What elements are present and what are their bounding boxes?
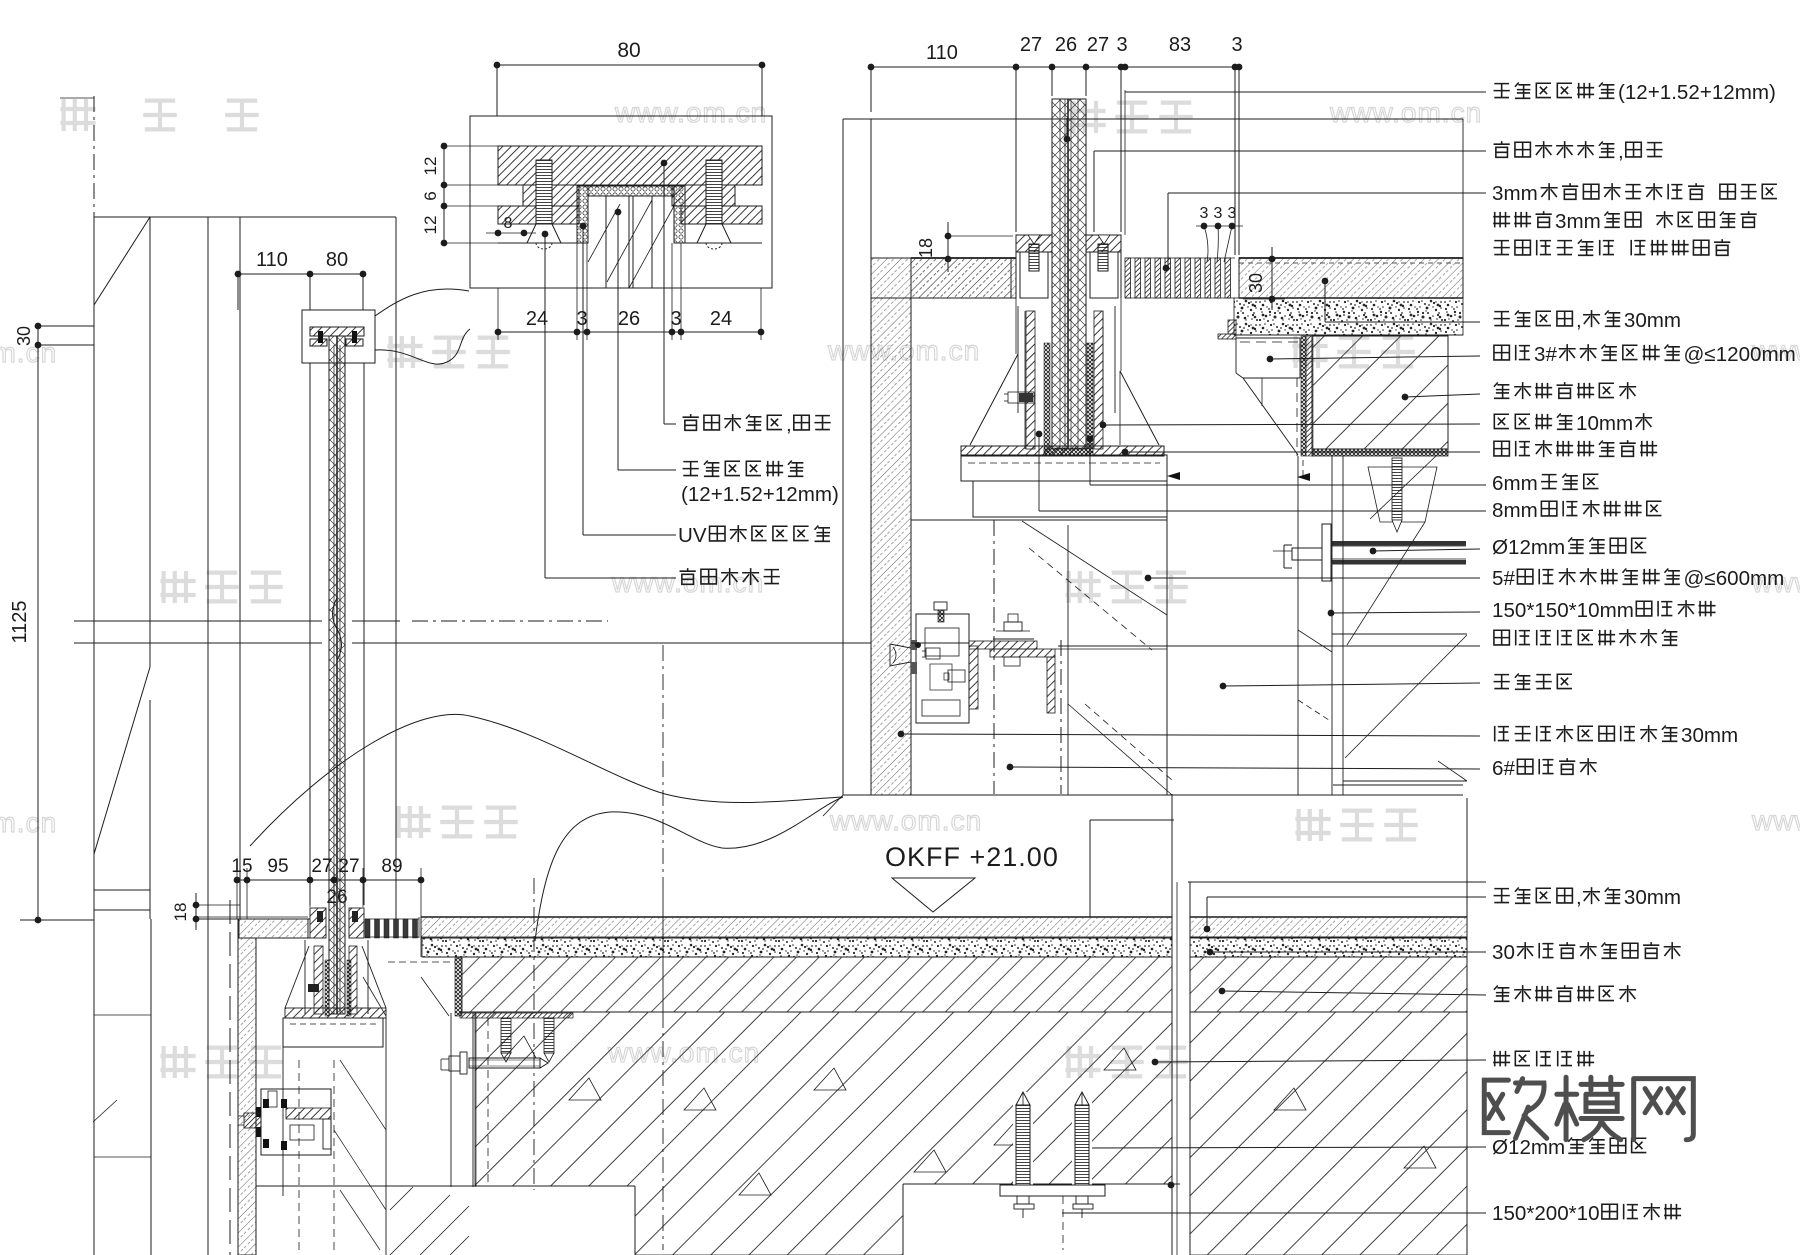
glass panel (left view) [329,336,345,1014]
label: stainless handrail [683,414,699,430]
shoe side trapezoid [970,354,1018,445]
lower mortar band [422,938,1172,957]
handrail box (left view) [302,310,375,363]
dim 30 (stone) [1271,247,1273,310]
leader curves to detail inset [375,289,469,316]
dim 3 3 3 [1196,225,1243,227]
svg-text:3: 3 [1214,205,1223,222]
floor edge line [843,794,1463,796]
leader: anchor lower [1082,1145,1089,1152]
mortar speckle band [1234,298,1463,335]
handrail clamp blocks [310,339,327,346]
svg-text:18: 18 [916,238,936,258]
gasket strips beside glass [1044,343,1050,455]
dim extension lines [870,67,872,112]
inset glass break diagonals [607,200,652,282]
svg-text:,: , [1576,309,1582,332]
svg-text:30: 30 [14,326,34,346]
svg-text:8mm: 8mm [1492,499,1538,522]
inset bolt left [536,160,552,224]
bracket middle bolts [926,648,940,659]
wall break diagonals [94,217,150,305]
shoe side bolt [1008,392,1034,403]
duct inner walls right [1297,456,1299,795]
svg-text:110: 110 [926,42,958,64]
svg-text:30: 30 [1246,273,1266,293]
structure outer edge [842,119,844,795]
leader: stainless fixing [1094,150,1486,152]
svg-text:8: 8 [504,215,513,232]
svg-text:80: 80 [617,39,640,62]
angle steel bracket top [1218,334,1236,339]
svg-text:3: 3 [1231,34,1242,56]
glass clamp left [1016,235,1052,252]
angle steel bracket arm [969,641,1037,649]
rubber pad leader [1087,436,1094,443]
svg-text:,: , [1618,140,1624,163]
lower back-bolt bracket [261,1089,331,1155]
upper floor slab edge lines (left) [74,620,322,622]
svg-text:24: 24 [710,308,732,330]
leader: grille [1168,192,1486,194]
shoe side plates hatched [1026,311,1035,449]
svg-text:95: 95 [267,856,288,877]
svg-text:www.om.cn: www.om.cn [1329,97,1482,128]
svg-text:27: 27 [1087,34,1109,56]
bracket horizontal line [911,642,969,644]
angle bolt bottom [1004,657,1020,666]
svg-text:3: 3 [1200,205,1209,222]
shoe plate verticals [1017,306,1019,413]
inset dim 80 top [497,64,762,66]
svg-text:3#: 3# [1534,343,1557,366]
anchor bolt pair in slab [1013,1092,1033,1190]
shoe base plates [961,455,1167,481]
lower shoe trapezoid [285,946,309,1008]
svg-text:26: 26 [1055,34,1077,56]
ceramic cushion leader [1402,394,1409,401]
duct support box [1236,337,1300,339]
svg-text:6#: 6# [1492,757,1515,780]
inset bolt right [706,160,722,224]
inset dim 8 [486,232,536,234]
shoe base plate hatched [961,446,1164,456]
label: laminated glass [683,462,699,476]
chemical anchor horizontal [1322,524,1331,581]
inset side blocks [523,185,579,206]
lower 150*200 plate with screws [460,1013,573,1018]
stainless grille bars [1125,258,1131,298]
svg-text:(12+1.52+12mm): (12+1.52+12mm) [1618,81,1776,104]
inset handrail top plate [498,146,762,185]
svg-text:6mm: 6mm [1492,472,1538,495]
svg-text:,: , [1576,886,1582,909]
wall joint lines [94,889,150,891]
svg-text:83: 83 [1169,34,1191,56]
dim 1125 [37,345,39,920]
svg-text:1125: 1125 [9,600,31,643]
8mm plate leader [1036,431,1043,438]
stone floor band left of clamp [911,258,1016,298]
leader glass 10mm [1100,422,1107,429]
self-tapping screw under cushion [1368,467,1437,522]
glass clamp right [1086,235,1121,252]
galvanized angle duct support leader [1267,356,1274,363]
svg-text:www.om.cn: www.om.cn [829,805,982,836]
natural stone leader (upper) [1322,278,1329,285]
svg-text:,: , [786,413,792,436]
svg-text:18: 18 [171,903,190,922]
svg-text:www.om.cn: www.om.cn [614,97,767,128]
svg-text:30mm: 30mm [1624,309,1681,332]
slab notches (white) [469,1186,635,1255]
leader shoe base [1122,449,1129,456]
lower grille bars [365,919,370,938]
glass slot verticals [309,363,311,905]
top dim chain [871,66,1239,68]
angle bolt top [1004,622,1022,631]
leader: mortar lower [1207,949,1214,956]
inset dim 24/3/26/3/24 [498,331,761,333]
svg-text:30: 30 [1492,941,1515,964]
svg-text:3: 3 [576,308,587,330]
dim 15/95/27/27/89 [237,879,421,881]
svg-text:3: 3 [1228,205,1237,222]
leader: 150*200 plate [1168,1182,1175,1189]
small arrows at plate seams [1167,472,1180,480]
svg-text:www.om.cn: www.om.cn [0,807,57,838]
leaders right (mid group) [1145,575,1152,582]
svg-text:30mm: 30mm [1681,724,1738,747]
leader: natural stone lower [1188,881,1486,883]
svg-text:26: 26 [326,887,347,908]
svg-text:3: 3 [1116,34,1127,56]
ceramic concrete cushion box [1301,336,1306,456]
level triangle [892,878,975,912]
lower horizontal anchor [469,1058,540,1068]
svg-text:89: 89 [381,856,402,877]
svg-text:5#: 5# [1492,567,1515,590]
svg-text:3mm: 3mm [1555,210,1601,233]
duct diagonals right [1345,635,1467,758]
svg-text:(12+1.52+12mm): (12+1.52+12mm) [681,483,839,506]
big watermark logo [1484,1079,1546,1139]
dim 18 lower-left [196,904,240,906]
svg-text:Ø12mm: Ø12mm [1492,536,1565,559]
wall column outline [94,216,396,218]
label laminated glass [1494,84,1510,98]
lower stone band [421,917,1172,937]
svg-text:15: 15 [231,856,252,877]
watermarks [60,99,95,131]
center axis dash-dot above wall [93,96,95,217]
lower floor stone top [421,916,1172,918]
lower shoe verticals [282,1047,284,1196]
detail inset box [470,116,772,288]
svg-text:3mm: 3mm [1492,182,1538,205]
svg-text:6: 6 [421,191,440,200]
lower shoe clamps [310,908,326,938]
dim 110 / 80 (left) [238,273,363,275]
svg-text:110: 110 [256,249,288,271]
bracket vertical plate [969,646,978,709]
wall hatch band [871,258,1011,298]
svg-text:@≤1200mm: @≤1200mm [1684,343,1796,366]
concrete triangles [569,1078,601,1100]
svg-text:OKFF +21.00: OKFF +21.00 [885,842,1059,872]
stone floor band right [1239,258,1463,298]
svg-text:@≤600mm: @≤600mm [1684,567,1785,590]
bracket top bolt [934,602,947,610]
svg-text:26: 26 [618,308,640,330]
svg-text:30mm: 30mm [1624,886,1681,909]
right edge vertical [1466,798,1468,1255]
svg-text:Ø12mm: Ø12mm [1492,1136,1565,1159]
inset glass panes [587,196,589,243]
svg-text:27: 27 [311,856,332,877]
air duct region [911,519,1167,521]
svg-text:12: 12 [421,157,440,176]
label: stainless screw [680,568,696,584]
wavy break curve upper [250,714,843,846]
inset glass gasket [577,186,588,243]
wavy break curve lower [535,797,843,941]
svg-text:150*150*10mm: 150*150*10mm [1492,599,1634,622]
back-bolt stone fixing bracket [916,614,969,723]
svg-text:12: 12 [421,216,440,235]
svg-text:UV: UV [678,524,707,547]
ceramic concrete layer [455,958,462,1016]
inset leader lines [661,160,668,167]
lower-left wall strips [150,919,152,1255]
balustrade glass [1052,99,1086,449]
wall hatch strip [871,298,911,795]
dim 30 (left) [38,325,94,327]
svg-text:150*200*10: 150*200*10 [1492,1202,1600,1225]
svg-text:27: 27 [1020,34,1042,56]
inset dim 12/6/12 left [443,146,445,243]
structural slab [475,1012,1172,1255]
floor step box [1089,820,1091,917]
lower verticals near anchor [450,1013,452,1187]
leader: laminated glass [1125,91,1486,93]
glass break squiggle at floor [333,598,342,660]
bracket wall cone anchor [890,644,911,666]
svg-text:80: 80 [326,249,348,271]
label natural stone upper [1494,312,1510,326]
svg-text:www.om.cn: www.om.cn [1751,805,1800,836]
svg-text:10mm: 10mm [1576,412,1633,435]
lower shoe base [285,1008,386,1018]
expansion joint verticals [1171,794,1173,1255]
svg-text:3: 3 [670,308,681,330]
svg-text:27: 27 [338,856,359,877]
handrail top bar [310,327,364,336]
leader: ceramic lower [1219,988,1226,995]
leader: slab [1152,1059,1159,1066]
dim 18 (right) [948,235,1013,237]
